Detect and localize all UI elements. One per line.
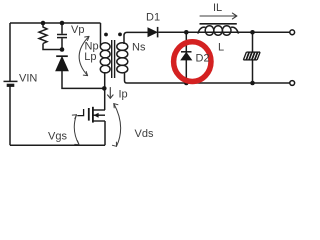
svg-text:D2: D2 — [196, 53, 210, 65]
inductor L core bar — [200, 23, 237, 25]
svg-text:IL: IL — [213, 2, 222, 14]
gate bar — [88, 108, 90, 121]
drain stub — [93, 109, 105, 111]
wire secondary top — [124, 32, 148, 44]
mosfet body arrow — [94, 113, 99, 118]
terminal output - — [290, 81, 295, 86]
highlight red circle around D2 — [174, 42, 211, 82]
node load bottom — [250, 81, 255, 86]
svg-text:Ns: Ns — [132, 41, 146, 53]
arrow Ip — [108, 88, 114, 99]
node clamp RC bottom — [60, 47, 65, 52]
arrow Vp arc — [79, 36, 89, 75]
node clamp junction top-left — [41, 21, 46, 26]
terminal output + — [290, 30, 295, 35]
transformer core — [112, 40, 115, 78]
arrow IL — [200, 13, 237, 19]
svg-text:Ip: Ip — [119, 89, 128, 101]
svg-text:L: L — [218, 42, 224, 54]
svg-text:Vds: Vds — [135, 128, 154, 140]
mosfet Q1 — [77, 107, 105, 123]
wire below battery — [9, 86, 11, 145]
capacitor C clamp — [57, 23, 67, 50]
transformer T1 primary winding Np — [100, 43, 110, 73]
diode clamp (points up) — [56, 56, 68, 71]
wire primary bottom to drain — [104, 72, 106, 110]
channel bar — [92, 107, 94, 123]
wire clamp to drain — [62, 70, 105, 88]
source stub — [93, 120, 105, 122]
svg-text:VIN: VIN — [19, 73, 37, 85]
node drain — [102, 86, 107, 91]
body stub — [93, 114, 105, 116]
svg-text:Lp: Lp — [84, 51, 96, 63]
node load top — [250, 30, 255, 35]
resistor R clamp — [39, 23, 47, 44]
gate lead hook — [77, 109, 83, 116]
arrow Vgs arc — [72, 115, 79, 145]
transformer T1 secondary winding Ns — [117, 43, 128, 73]
node D2 bottom — [184, 81, 189, 86]
arrow Vds arc — [112, 104, 120, 147]
load hatched box — [243, 52, 260, 60]
wire load branch — [252, 32, 254, 83]
polarity dot primary — [104, 33, 108, 37]
diode D1 — [148, 27, 158, 38]
wire left vertical — [9, 23, 11, 81]
battery VIN — [4, 81, 18, 85]
svg-text:Vp: Vp — [71, 24, 84, 36]
wire mosfet source lead — [104, 121, 106, 145]
wire primary top drop — [100, 23, 102, 46]
svg-text:Vgs: Vgs — [48, 130, 67, 142]
node D2 top — [184, 30, 189, 35]
inductor L coil — [198, 26, 239, 36]
wire bottom rail — [10, 144, 105, 146]
wire resistor bottom jog — [43, 44, 62, 50]
diode D2 (points up) — [181, 52, 192, 60]
polarity dot secondary — [118, 33, 122, 37]
wire secondary bottom — [125, 72, 291, 83]
wire output top rail — [159, 31, 291, 33]
node clamp junction top-right — [60, 21, 65, 26]
wire input top rail — [10, 22, 101, 24]
wire D2 branch — [185, 32, 187, 83]
svg-text:D1: D1 — [146, 12, 160, 24]
